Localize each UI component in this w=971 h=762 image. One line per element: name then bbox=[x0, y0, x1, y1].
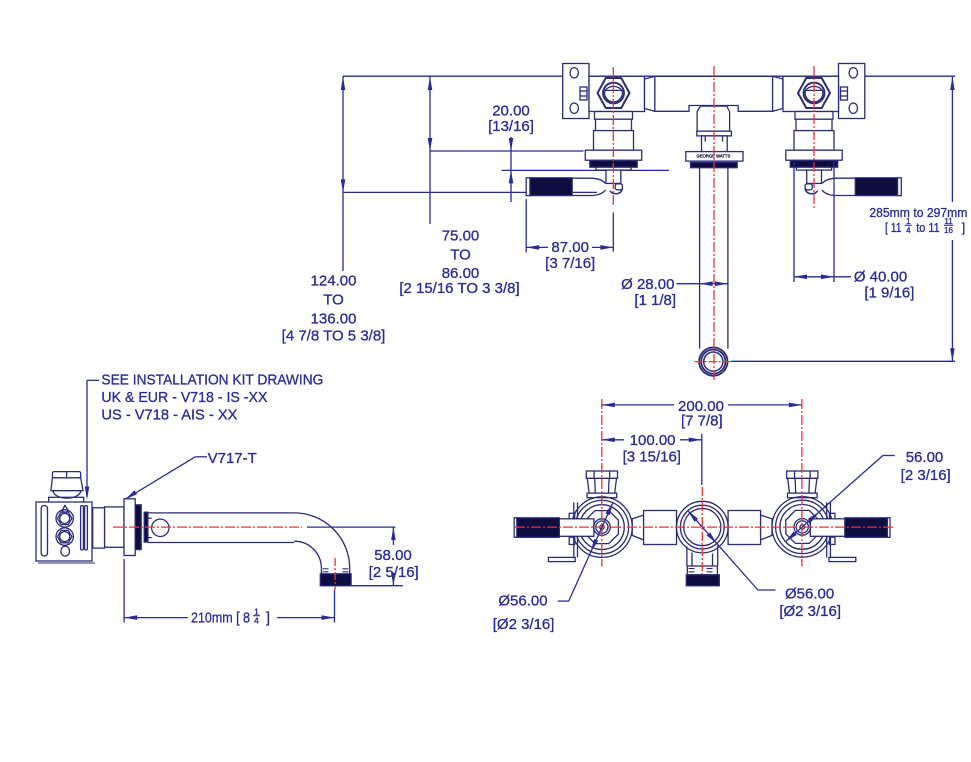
svg-text:Ø 28.00: Ø 28.00 bbox=[621, 276, 674, 293]
svg-text:[ 11: [ 11 bbox=[885, 220, 902, 235]
svg-text:[Ø2 3/16]: [Ø2 3/16] bbox=[493, 616, 555, 633]
svg-text:58.00: 58.00 bbox=[374, 547, 412, 564]
svg-text:[1 1/8]: [1 1/8] bbox=[634, 292, 676, 309]
svg-text:[13/16]: [13/16] bbox=[488, 118, 534, 135]
svg-text:V717-T: V717-T bbox=[208, 450, 257, 467]
svg-text:US - V718 - AIS - XX: US - V718 - AIS - XX bbox=[101, 406, 237, 423]
svg-text:[7 7/8]: [7 7/8] bbox=[681, 412, 723, 429]
svg-text:UK & EUR - V718 - IS -XX: UK & EUR - V718 - IS -XX bbox=[101, 389, 267, 406]
svg-text:4: 4 bbox=[906, 226, 911, 235]
svg-text:87.00: 87.00 bbox=[551, 239, 589, 256]
svg-text:124.00: 124.00 bbox=[311, 272, 357, 289]
svg-text:20.00: 20.00 bbox=[492, 103, 530, 120]
svg-text:Ø 40.00: Ø 40.00 bbox=[854, 269, 907, 286]
svg-text:]: ] bbox=[266, 610, 270, 626]
svg-text:210mm [ 8: 210mm [ 8 bbox=[191, 610, 250, 626]
svg-text:75.00: 75.00 bbox=[442, 227, 480, 244]
svg-text:[3 7/16]: [3 7/16] bbox=[545, 255, 595, 272]
svg-text:Ø56.00: Ø56.00 bbox=[498, 593, 547, 610]
svg-text:Ø56.00: Ø56.00 bbox=[785, 586, 834, 603]
svg-text:[2 3/16]: [2 3/16] bbox=[901, 467, 951, 484]
svg-text:136.00: 136.00 bbox=[311, 311, 357, 328]
svg-text:285mm to 297mm: 285mm to 297mm bbox=[869, 205, 967, 220]
svg-text:56.00: 56.00 bbox=[906, 449, 944, 466]
svg-text:11: 11 bbox=[944, 217, 953, 226]
svg-text:[Ø2 3/16]: [Ø2 3/16] bbox=[779, 603, 841, 620]
svg-text:1: 1 bbox=[906, 217, 911, 226]
svg-text:[2 5/16]: [2 5/16] bbox=[369, 564, 419, 581]
svg-text:4: 4 bbox=[254, 615, 259, 625]
svg-text:[4 7/8 TO 5 3/8]: [4 7/8 TO 5 3/8] bbox=[282, 328, 386, 345]
svg-text:to 11: to 11 bbox=[916, 220, 940, 235]
svg-text:[3 15/16]: [3 15/16] bbox=[623, 448, 681, 465]
svg-text:]: ] bbox=[962, 220, 966, 235]
svg-text:[1 9/16]: [1 9/16] bbox=[864, 285, 914, 302]
svg-text:TO: TO bbox=[450, 247, 471, 264]
svg-text:SEE INSTALLATION KIT DRAWING: SEE INSTALLATION KIT DRAWING bbox=[101, 372, 323, 389]
svg-text:TO: TO bbox=[323, 292, 344, 309]
svg-text:100.00: 100.00 bbox=[630, 432, 676, 449]
svg-text:[2 15/16 TO 3 3/8]: [2 15/16 TO 3 3/8] bbox=[399, 280, 519, 297]
svg-text:16: 16 bbox=[944, 226, 953, 235]
